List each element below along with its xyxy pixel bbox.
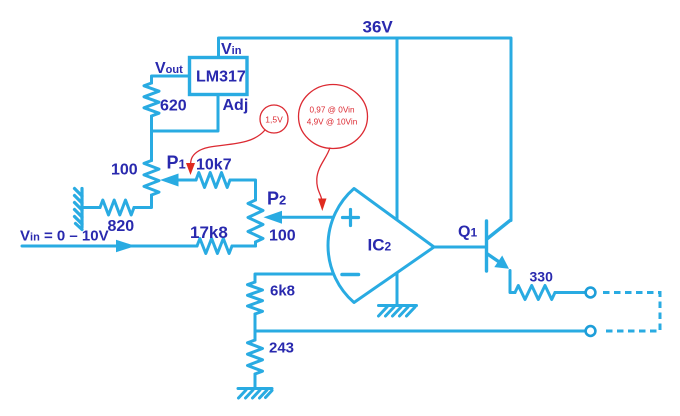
resistor 6k8 bbox=[248, 282, 263, 314]
wire 243 to ground bbox=[254, 374, 257, 388]
wire 620 bottom to Adj pin bbox=[152, 95, 219, 132]
wire P2 wiper to op-amp + input bbox=[280, 216, 333, 219]
resistor 620 bbox=[144, 83, 159, 116]
wire P1 wiper to 10k7 bbox=[176, 179, 196, 182]
op-amp minus symbol bbox=[342, 273, 359, 277]
wire 330 to upper terminal bbox=[555, 291, 585, 294]
svg-text:100: 100 bbox=[111, 162, 138, 179]
svg-text:Vin = 0 – 10V: Vin = 0 – 10V bbox=[20, 228, 109, 245]
svg-text:4,9V @ 10Vin: 4,9V @ 10Vin bbox=[307, 118, 358, 127]
Vin input arrowhead bbox=[116, 240, 136, 252]
resistor 330 bbox=[515, 286, 555, 300]
wire 6k8 to junction bbox=[254, 314, 257, 340]
wire Q1 emitter down bbox=[510, 271, 515, 293]
svg-text:330: 330 bbox=[530, 269, 554, 285]
dashed link bbox=[603, 293, 660, 332]
svg-text:IC2: IC2 bbox=[368, 236, 392, 255]
svg-text:10k7: 10k7 bbox=[196, 157, 232, 174]
terminal upper bbox=[586, 288, 596, 298]
svg-text:17k8: 17k8 bbox=[190, 223, 228, 242]
wire 10k7 to P2 top bbox=[230, 180, 256, 200]
resistor 10k7 bbox=[196, 173, 230, 188]
wire op-amp output to Q1 base bbox=[434, 246, 485, 249]
svg-text:Q1: Q1 bbox=[458, 224, 477, 241]
ground op-amp bbox=[379, 306, 417, 317]
annotation tail to P1 wiper bbox=[191, 130, 266, 166]
svg-text:620: 620 bbox=[160, 98, 187, 115]
svg-text:Adj: Adj bbox=[223, 97, 249, 114]
wire feedback to lower terminal bbox=[255, 330, 586, 333]
svg-text:P1: P1 bbox=[167, 153, 186, 173]
emitter arrowhead bbox=[494, 256, 509, 269]
transistor Q1 bbox=[487, 221, 511, 272]
svg-text:243: 243 bbox=[269, 340, 294, 357]
svg-text:36V: 36V bbox=[363, 18, 394, 37]
annotation tail to op-amp input bbox=[317, 148, 330, 201]
annotation balloon 1,5V bbox=[260, 105, 288, 133]
wire P2 bottom junction bbox=[254, 242, 257, 246]
svg-text:820: 820 bbox=[108, 218, 135, 235]
annotation balloon 0,97V bbox=[299, 85, 368, 149]
wire Vout to LM317 bbox=[152, 76, 190, 83]
chassis wall anchor bbox=[75, 189, 83, 230]
wire op-amp to ground bbox=[396, 273, 399, 305]
wire Vin input bbox=[22, 245, 197, 248]
resistor 17k8 bbox=[197, 239, 232, 254]
op-amp IC2 body bbox=[328, 189, 434, 303]
P1 wiper arrow bbox=[160, 174, 179, 187]
wire P1 bottom to 820 bbox=[134, 195, 152, 208]
svg-text:6k8: 6k8 bbox=[270, 283, 295, 300]
op-amp plus symbol bbox=[343, 210, 359, 226]
svg-text:LM317: LM317 bbox=[196, 69, 246, 86]
ground bottom left bbox=[238, 389, 272, 399]
LM317 box bbox=[190, 58, 248, 95]
wire top rail 36V bbox=[219, 38, 512, 221]
P2 wiper arrow bbox=[264, 211, 283, 224]
resistor 243 bbox=[248, 340, 263, 374]
svg-text:100: 100 bbox=[269, 228, 296, 245]
wire 17k8 to P2 bottom bbox=[232, 245, 256, 248]
wire V+ supply into op-amp bbox=[396, 38, 399, 219]
svg-text:Vout: Vout bbox=[155, 60, 183, 77]
potentiometer P1 body bbox=[144, 161, 159, 196]
wire 820 to wall bbox=[82, 206, 100, 209]
svg-text:P2: P2 bbox=[267, 189, 286, 209]
wire op-amp - input bbox=[255, 274, 333, 282]
svg-text:1,5V: 1,5V bbox=[265, 115, 283, 125]
resistor 820 bbox=[100, 200, 134, 215]
svg-text:0,97 @ 0Vin: 0,97 @ 0Vin bbox=[309, 106, 354, 115]
potentiometer P2 body bbox=[248, 200, 263, 242]
terminal lower bbox=[586, 326, 596, 336]
svg-text:Vin: Vin bbox=[221, 41, 242, 58]
wire 620 junction down to P1 bbox=[150, 131, 153, 161]
